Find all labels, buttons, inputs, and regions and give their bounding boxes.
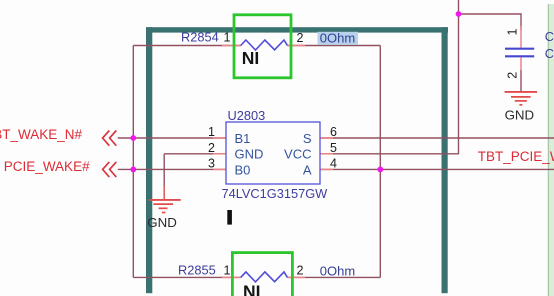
svg-text:1: 1	[224, 31, 231, 45]
wire: A pin to right edge	[320, 168, 554, 170]
pin stub B0	[213, 168, 226, 170]
svg-text:U2803: U2803	[228, 108, 266, 123]
wire: R2855 bottom horizontal left	[133, 276, 240, 278]
pin stub R2855 pin1	[222, 276, 241, 278]
svg-text:R2854: R2854	[181, 30, 219, 45]
pin stub R2854 pin2	[287, 45, 305, 47]
svg-text:6: 6	[330, 125, 337, 139]
svg-text:2: 2	[297, 31, 304, 45]
svg-text:2: 2	[208, 141, 215, 155]
svg-text:1: 1	[224, 263, 231, 277]
wire: R2854 top horizontal	[133, 45, 240, 47]
NI box (R2855 not-installed marker)	[232, 253, 292, 296]
svg-text:B0: B0	[235, 162, 251, 177]
wire: pin 2 GND stub	[164, 153, 226, 155]
svg-text:S: S	[303, 131, 312, 146]
value label 0Ohm (highlighted)	[318, 30, 359, 45]
wire: GND lead (left)	[163, 186, 165, 199]
junction node at pin A	[377, 167, 383, 173]
pin stub B1	[213, 137, 226, 139]
mux U2803 body	[222, 108, 329, 201]
pin stub R2854 pin1	[222, 45, 241, 47]
svg-text:TBT_PCIE_WAKE_N#: TBT_PCIE_WAKE_N#	[478, 149, 554, 164]
svg-text:B1: B1	[235, 131, 251, 146]
NI box (R2854 not-installed marker)	[234, 15, 291, 78]
svg-text:1: 1	[505, 29, 519, 36]
svg-text:NI: NI	[242, 48, 259, 68]
highlight box (teal selection rectangle)	[146, 27, 448, 293]
ground (left)	[147, 200, 180, 230]
svg-text:2: 2	[297, 264, 304, 278]
pin stub VCC	[320, 153, 333, 155]
svg-text:C: C	[545, 29, 554, 44]
resistor R2855	[178, 262, 355, 282]
svg-text:R2855: R2855	[178, 262, 216, 277]
net label TBT_WAKE_N#	[0, 127, 116, 146]
svg-text:C: C	[545, 46, 554, 61]
svg-text:1: 1	[208, 125, 215, 139]
ground (right)	[505, 92, 537, 123]
off-page connector strip (right edge)	[548, 4, 554, 296]
resistor R2854	[181, 30, 304, 50]
svg-text:0Ohm: 0Ohm	[320, 30, 355, 45]
junction node at TBT_WAKE_N#	[130, 135, 136, 141]
svg-text:PCIE_WAKE#: PCIE_WAKE#	[4, 159, 90, 174]
wire: right vertical net (x=380.3)	[379, 46, 381, 278]
capacitor bottom lead	[520, 57, 522, 70]
junction node at VCC rail	[456, 11, 462, 17]
svg-text:2: 2	[505, 72, 519, 79]
wire: VCC pin to riser	[320, 153, 459, 155]
pin stub S	[320, 137, 333, 139]
note mark I	[227, 210, 232, 225]
wire: R2854 right to right vertical	[287, 45, 380, 47]
svg-text:3: 3	[208, 157, 215, 171]
junction node at PCIE_WAKE#	[130, 167, 136, 173]
wire: R2855 bottom horizontal right	[287, 276, 380, 278]
svg-text:5: 5	[330, 141, 337, 155]
svg-text:GND: GND	[505, 108, 535, 123]
svg-text:A: A	[303, 162, 312, 177]
svg-text:GND: GND	[147, 215, 177, 230]
svg-text:VCC: VCC	[284, 147, 311, 162]
svg-text:74LVC1G3157GW: 74LVC1G3157GW	[222, 186, 329, 201]
net label PCIE_WAKE#	[4, 159, 117, 177]
wire: VCC rail to capacitor	[459, 14, 522, 30]
wire: GND drop (left)	[163, 154, 165, 186]
svg-text:NI: NI	[243, 282, 261, 296]
wire: TBT_WAKE_N# to pin 1	[118, 137, 226, 139]
pin stub GND	[213, 153, 226, 155]
pin stub R2855 pin2	[287, 276, 305, 278]
wire: S pin to right edge	[320, 137, 554, 139]
svg-text:4: 4	[330, 157, 337, 171]
svg-text:GND: GND	[235, 147, 264, 162]
wire: PCIE_WAKE# to pin 3	[118, 168, 226, 170]
svg-text:0Ohm: 0Ohm	[320, 263, 355, 278]
wire: left vertical net (x=133.3)	[132, 46, 134, 278]
pin stub A	[320, 168, 333, 170]
capacitor C plates	[505, 49, 534, 57]
svg-text:TBT_WAKE_N#: TBT_WAKE_N#	[0, 127, 82, 142]
capacitor C (top plate lead)	[520, 26, 522, 48]
wire: VCC riser (x=458.5)	[458, 0, 460, 154]
